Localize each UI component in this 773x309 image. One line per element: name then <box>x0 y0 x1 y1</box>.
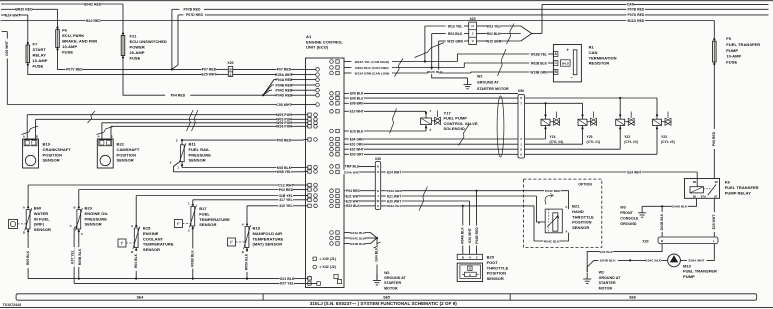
svg-text:E26A WHT: E26A WHT <box>689 259 705 263</box>
svg-text:R03B BLK: R03B BLK <box>191 250 195 267</box>
svg-text:1: 1 <box>430 109 432 113</box>
svg-text:W13B YEL: W13B YEL <box>531 52 547 56</box>
svg-text:(CYL #3): (CYL #3) <box>661 140 675 144</box>
svg-text:E01 ORG: E01 ORG <box>350 142 365 146</box>
svg-text:G04D BLK: G04D BLK <box>672 205 688 209</box>
svg-text:P04A RED: P04A RED <box>276 78 293 82</box>
svg-text:FUEL TRANSFER: FUEL TRANSFER <box>725 185 759 190</box>
svg-text:B10 RED: B10 RED <box>86 19 101 23</box>
svg-text:P04D RED: P04D RED <box>276 93 293 97</box>
svg-text:E24 WHT: E24 WHT <box>627 170 641 174</box>
svg-text:FRONT: FRONT <box>620 211 633 215</box>
svg-text:POWER: POWER <box>130 44 145 49</box>
svg-text:Y22: Y22 <box>624 135 630 139</box>
svg-text:B11D RED: B11D RED <box>627 19 644 23</box>
svg-text:SE6: SE6 <box>629 296 636 300</box>
svg-text:FUSE: FUSE <box>726 60 737 65</box>
svg-text:SENSOR: SENSOR <box>199 222 216 227</box>
svg-text:B: B <box>661 239 663 243</box>
svg-text:V: V <box>472 39 474 43</box>
svg-text:GROUND AT: GROUND AT <box>477 81 500 85</box>
svg-text:(CYL #4): (CYL #4) <box>550 140 564 144</box>
svg-text:W05 PUR: W05 PUR <box>276 113 292 117</box>
svg-text:P07 RED: P07 RED <box>277 68 292 72</box>
svg-text:E02 WHT: E02 WHT <box>350 147 364 151</box>
svg-text:PUMP: PUMP <box>683 274 695 279</box>
svg-text:1: 1 <box>177 166 179 170</box>
svg-text:G04C BLK: G04C BLK <box>350 236 366 240</box>
svg-text:FOOT: FOOT <box>487 260 499 265</box>
svg-text:STARTER: STARTER <box>599 281 616 285</box>
svg-text:R02B BLK: R02B BLK <box>531 61 548 65</box>
svg-text:W15 GRN: W15 GRN <box>486 39 502 43</box>
svg-text:B: B <box>242 250 244 254</box>
svg-text:CRANKSHAFT: CRANKSHAFT <box>43 147 72 152</box>
svg-text:B17: B17 <box>199 206 207 211</box>
svg-text:K: K <box>377 165 379 169</box>
svg-text:IN FUEL: IN FUEL <box>34 216 50 221</box>
svg-text:310LJ (S.N. 8X0237— ) SYSTEM F: 310LJ (S.N. 8X0237— ) SYSTEM FUNCTIONAL … <box>310 301 457 306</box>
svg-text:B23: B23 <box>85 206 93 211</box>
svg-text:P07V RED: P07V RED <box>66 68 83 72</box>
svg-text:2: 2 <box>170 161 172 165</box>
svg-text:PUMP RELAY: PUMP RELAY <box>725 191 752 196</box>
svg-text:2: 2 <box>430 128 432 132</box>
svg-text:FUEL RAIL: FUEL RAIL <box>189 147 211 152</box>
svg-text:W13 YEL: W13 YEL <box>448 24 463 28</box>
svg-text:85: 85 <box>693 195 697 199</box>
svg-text:B: B <box>131 250 133 254</box>
svg-text:STARTER: STARTER <box>384 281 401 285</box>
svg-text:MOTOR: MOTOR <box>599 286 613 290</box>
svg-text:(CYL #2): (CYL #2) <box>624 140 638 144</box>
svg-text:P04A RED: P04A RED <box>386 189 402 193</box>
svg-text:20-AMP: 20-AMP <box>130 50 145 55</box>
svg-text:RELAY: RELAY <box>33 52 47 57</box>
svg-text:E24 WHT: E24 WHT <box>5 13 21 17</box>
svg-text:CAMSHAFT: CAMSHAFT <box>117 147 140 152</box>
svg-text:SENSOR: SENSOR <box>34 227 51 232</box>
svg-text:HAND: HAND <box>572 209 584 214</box>
svg-text:G04 BLK: G04 BLK <box>375 247 379 262</box>
svg-text:J: J <box>472 32 474 36</box>
svg-text:COOLANT: COOLANT <box>143 236 164 241</box>
svg-text:SENSOR: SENSOR <box>487 276 504 281</box>
svg-text:H: H <box>471 24 473 28</box>
svg-text:P04B RED: P04B RED <box>475 227 479 244</box>
svg-text:3: 3 <box>176 139 178 143</box>
svg-text:SOLENOID: SOLENOID <box>444 126 465 131</box>
svg-text:86: 86 <box>693 180 697 184</box>
svg-text:FUEL TRANSFER: FUEL TRANSFER <box>726 42 760 47</box>
svg-text:R02A BLK (CAN GND): R02A BLK (CAN GND) <box>355 66 388 70</box>
svg-text:E24A WHT: E24A WHT <box>344 170 360 174</box>
svg-text:TERMINATION: TERMINATION <box>589 55 617 60</box>
svg-text:B: B <box>538 220 540 224</box>
svg-text:FUSE: FUSE <box>130 55 141 60</box>
svg-text:E20 WHT: E20 WHT <box>387 199 401 203</box>
svg-text:ECU UNSWITCHED: ECU UNSWITCHED <box>130 39 167 44</box>
svg-text:P02 RED: P02 RED <box>279 188 294 192</box>
svg-text:F9: F9 <box>726 36 731 41</box>
svg-text:MANIFOLD AIR: MANIFOLD AIR <box>253 231 283 236</box>
svg-text:B: B <box>74 206 76 210</box>
svg-text:B04D RED: B04D RED <box>84 2 102 6</box>
svg-text:10-AMP: 10-AMP <box>62 44 77 49</box>
svg-text:R04B BLK: R04B BLK <box>461 227 465 244</box>
svg-text:SE4: SE4 <box>137 296 144 300</box>
svg-text:G: G <box>377 189 379 193</box>
svg-text:W2: W2 <box>477 74 483 78</box>
svg-text:(MAT) SENSOR: (MAT) SENSOR <box>253 242 283 247</box>
svg-text:POSITION: POSITION <box>487 271 507 276</box>
svg-text:W: W <box>229 68 232 72</box>
svg-text:E20 WHT: E20 WHT <box>468 228 472 243</box>
svg-text:B11: B11 <box>189 142 197 147</box>
svg-text:BR30 RED: BR30 RED <box>15 8 33 12</box>
svg-text:R05A BLK: R05A BLK <box>245 253 249 270</box>
svg-text:SENSOR: SENSOR <box>85 222 102 227</box>
svg-text:310 YEL: 310 YEL <box>279 204 292 208</box>
svg-text:R02 BLK: R02 BLK <box>487 32 501 36</box>
svg-text:R05B BLK: R05B BLK <box>78 248 82 265</box>
svg-text:G21 BLK: G21 BLK <box>280 277 295 281</box>
svg-text:P04C RED: P04C RED <box>276 88 293 92</box>
svg-text:TEMPERATURE: TEMPERATURE <box>143 242 174 247</box>
svg-text:THROTTLE: THROTTLE <box>572 214 594 219</box>
svg-text:P04 RED: P04 RED <box>346 189 360 193</box>
svg-text:POSITION: POSITION <box>572 220 592 225</box>
svg-text:CONSOLE: CONSOLE <box>620 217 639 221</box>
svg-text:SHLD: SHLD <box>562 62 569 66</box>
svg-text:P07 RED: P07 RED <box>202 68 217 72</box>
svg-text:W15 GRN: W15 GRN <box>447 39 463 43</box>
svg-text:X50: X50 <box>518 89 524 93</box>
svg-text:K07 YEL: K07 YEL <box>280 282 294 286</box>
svg-text:E06 BLK: E06 BLK <box>350 92 364 96</box>
svg-text:G04B BLK: G04B BLK <box>660 213 664 230</box>
svg-text:POSITION: POSITION <box>43 152 63 157</box>
svg-text:B15: B15 <box>143 226 151 231</box>
svg-text:B20: B20 <box>487 255 495 260</box>
svg-text:E25A WHT: E25A WHT <box>275 73 293 77</box>
svg-text:317 YEL: 317 YEL <box>279 198 292 202</box>
svg-text:= X40 (J1): = X40 (J1) <box>320 257 336 261</box>
svg-text:Y25: Y25 <box>587 135 593 139</box>
svg-text:K6: K6 <box>725 180 731 185</box>
svg-text:FUSE: FUSE <box>62 50 73 55</box>
svg-text:TMP BLU: TMP BLU <box>345 165 360 169</box>
svg-text:X: X <box>469 273 471 277</box>
svg-text:E24 WHT: E24 WHT <box>387 170 401 174</box>
svg-text:W13B GRN: W13B GRN <box>530 70 548 74</box>
svg-text:PUMP: PUMP <box>726 48 738 53</box>
svg-text:87: 87 <box>714 195 718 199</box>
svg-text:E06 BRN: E06 BRN <box>350 102 364 106</box>
svg-text:K07 YEL: K07 YEL <box>71 250 75 264</box>
svg-text:CAN: CAN <box>589 50 598 55</box>
svg-text:R04 BLK: R04 BLK <box>134 253 138 268</box>
svg-text:SENSOR: SENSOR <box>143 247 160 252</box>
svg-text:87A: 87A <box>701 195 707 199</box>
svg-text:C05 WHT: C05 WHT <box>276 103 292 107</box>
svg-text:E06 BLU: E06 BLU <box>350 96 364 100</box>
svg-text:= X42 (J2): = X42 (J2) <box>320 265 336 269</box>
svg-text:P08 RED: P08 RED <box>277 138 292 142</box>
svg-text:OPTION: OPTION <box>578 182 592 186</box>
svg-text:SE5: SE5 <box>383 296 390 300</box>
svg-text:F7: F7 <box>33 41 38 46</box>
svg-text:E04 GRN: E04 GRN <box>350 137 365 141</box>
svg-text:W13A GRN (CAN LOW): W13A GRN (CAN LOW) <box>355 71 390 75</box>
svg-text:STARTER MOTOR: STARTER MOTOR <box>477 87 509 91</box>
svg-text:W2: W2 <box>599 271 605 275</box>
svg-text:B18: B18 <box>253 226 261 231</box>
svg-text:30: 30 <box>715 180 719 184</box>
svg-text:R22 BLK: R22 BLK <box>346 204 360 208</box>
svg-text:P07D RED: P07D RED <box>186 13 203 17</box>
svg-text:R1: R1 <box>589 45 595 50</box>
svg-text:START: START <box>33 47 47 52</box>
svg-text:W2: W2 <box>384 271 390 275</box>
svg-text:H: H <box>377 170 379 174</box>
svg-text:WATER: WATER <box>34 211 48 216</box>
svg-text:X20: X20 <box>642 239 648 243</box>
svg-text:X20: X20 <box>227 61 233 65</box>
svg-text:B: B <box>462 255 464 259</box>
svg-text:POSITION: POSITION <box>117 152 137 157</box>
svg-text:E: E <box>230 73 232 77</box>
svg-text:C05 WHT: C05 WHT <box>5 41 9 56</box>
svg-text:W: W <box>377 199 380 203</box>
svg-text:THROTTLE: THROTTLE <box>487 265 509 270</box>
svg-text:E20 WHT: E20 WHT <box>346 199 360 203</box>
svg-text:C12 WHT: C12 WHT <box>278 183 294 187</box>
svg-text:G04B BLK: G04B BLK <box>350 242 366 246</box>
svg-text:G04C BLK: G04C BLK <box>645 259 661 263</box>
svg-text:B: B <box>469 267 471 271</box>
svg-text:P07B RED: P07B RED <box>184 8 201 12</box>
svg-text:B: B <box>23 231 25 235</box>
svg-text:R02 BLK: R02 BLK <box>448 32 463 36</box>
svg-text:MOTOR: MOTOR <box>384 286 398 290</box>
svg-text:ENGINE: ENGINE <box>143 231 159 236</box>
svg-text:GROUND AT: GROUND AT <box>599 276 622 280</box>
svg-text:X20: X20 <box>470 17 476 21</box>
svg-text:L: L <box>713 239 715 243</box>
svg-text:F6: F6 <box>62 27 67 32</box>
svg-text:P07B RED: P07B RED <box>627 8 644 12</box>
svg-text:E25 WHT: E25 WHT <box>201 73 217 77</box>
svg-text:TX1072444: TX1072444 <box>3 303 22 307</box>
svg-text:S: S <box>377 204 379 208</box>
svg-text:CAN: CAN <box>627 3 635 7</box>
svg-text:FUEL: FUEL <box>199 211 210 216</box>
svg-text:B22: B22 <box>117 142 125 147</box>
svg-text:PRESSURE: PRESSURE <box>85 216 108 221</box>
svg-text:RESISTOR: RESISTOR <box>589 61 610 66</box>
svg-text:SENSOR: SENSOR <box>117 158 134 163</box>
svg-text:Y23: Y23 <box>661 135 667 139</box>
svg-text:E21 WHT: E21 WHT <box>387 194 401 198</box>
svg-text:UNIT (ECU): UNIT (ECU) <box>306 45 329 50</box>
svg-text:E21 WHT: E21 WHT <box>346 194 360 198</box>
svg-text:(WIF): (WIF) <box>34 222 45 227</box>
svg-text:ENGINE OIL: ENGINE OIL <box>85 211 109 216</box>
svg-text:GROUND AT: GROUND AT <box>384 276 407 280</box>
svg-text:G04A BLK: G04A BLK <box>350 231 366 235</box>
svg-text:F21: F21 <box>130 34 138 39</box>
svg-text:SENSOR: SENSOR <box>43 158 60 163</box>
svg-text:PRESSURE: PRESSURE <box>189 152 212 157</box>
svg-text:E26 WHT: E26 WHT <box>712 215 716 230</box>
svg-text:ECU, PARK: ECU, PARK <box>62 33 84 38</box>
svg-text:G04D BLK: G04D BLK <box>600 259 616 263</box>
svg-text:FUSE: FUSE <box>33 63 44 68</box>
svg-text:P08 RED: P08 RED <box>712 131 716 146</box>
svg-text:W3: W3 <box>620 206 626 210</box>
svg-text:W08 YEL: W08 YEL <box>277 170 292 174</box>
svg-text:Y24: Y24 <box>550 135 556 139</box>
svg-text:E03 GRY: E03 GRY <box>350 153 365 157</box>
svg-text:B60: B60 <box>34 206 42 211</box>
svg-text:P04B RED: P04B RED <box>276 83 293 87</box>
svg-text:TEMPERATURE: TEMPERATURE <box>199 217 230 222</box>
svg-text:B19: B19 <box>43 142 51 147</box>
svg-text:SENSOR: SENSOR <box>572 225 589 230</box>
svg-text:P07D RED: P07D RED <box>627 13 644 17</box>
svg-text:E10 WHT: E10 WHT <box>350 110 364 114</box>
svg-text:BRAKE, AND FNR: BRAKE, AND FNR <box>62 38 97 43</box>
svg-text:R04C BLK: R04C BLK <box>544 239 560 243</box>
svg-text:W13A YEL (CAN HIGH): W13A YEL (CAN HIGH) <box>355 60 389 64</box>
svg-text:B21: B21 <box>572 204 580 209</box>
svg-text:R05 BLK: R05 BLK <box>26 250 30 265</box>
svg-text:10-AMP: 10-AMP <box>33 58 48 63</box>
svg-text:P04C RED: P04C RED <box>545 189 561 193</box>
svg-text:SENSOR: SENSOR <box>189 158 206 163</box>
svg-text:E16 BLK: E16 BLK <box>350 129 364 133</box>
svg-text:P04 RED: P04 RED <box>171 93 186 97</box>
svg-text:GROUND: GROUND <box>620 222 637 226</box>
svg-text:R04A BLK: R04A BLK <box>386 204 402 208</box>
svg-text:10-AMP: 10-AMP <box>726 54 741 59</box>
svg-text:(CYL #1): (CYL #1) <box>587 140 601 144</box>
svg-text:W13 YEL: W13 YEL <box>487 24 501 28</box>
svg-text:W26 PUR: W26 PUR <box>276 125 292 129</box>
svg-text:X30: X30 <box>375 157 381 161</box>
svg-text:R02C BLK: R02C BLK <box>427 70 443 74</box>
svg-text:G01 BLK: G01 BLK <box>599 250 613 254</box>
svg-text:TEMPERATURE: TEMPERATURE <box>253 236 284 241</box>
